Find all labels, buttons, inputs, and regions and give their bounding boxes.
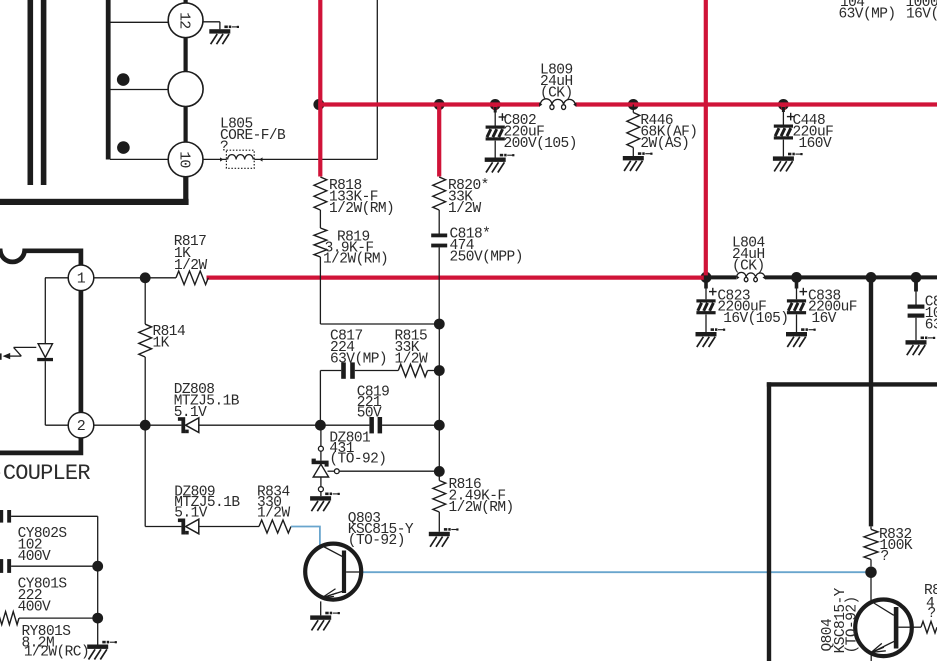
svg-text:400V: 400V — [18, 600, 51, 616]
svg-text:12: 12 — [176, 12, 193, 28]
svg-text:?: ? — [881, 549, 889, 565]
svg-text:2W(AS): 2W(AS) — [640, 136, 689, 152]
svg-text:1: 1 — [77, 271, 86, 288]
svg-text:(CK): (CK) — [732, 259, 765, 275]
svg-text:(TO-92): (TO-92) — [348, 533, 405, 549]
svg-text:1/2W: 1/2W — [448, 201, 481, 217]
svg-text:?: ? — [220, 140, 228, 156]
svg-text:1K: 1K — [153, 335, 170, 351]
svg-text:160V: 160V — [799, 136, 832, 152]
svg-text:63V(MP): 63V(MP) — [839, 7, 896, 23]
svg-text:16V(105): 16V(105) — [723, 311, 788, 327]
svg-text:1/2W: 1/2W — [174, 258, 207, 274]
svg-text:(CK): (CK) — [540, 86, 573, 102]
svg-text:1/2W(RM): 1/2W(RM) — [329, 201, 394, 217]
svg-text:400V: 400V — [18, 549, 51, 565]
svg-text:2: 2 — [77, 418, 86, 435]
svg-text:5.1V: 5.1V — [174, 405, 207, 421]
svg-text:?: ? — [928, 606, 936, 622]
svg-text:1/2W(RM): 1/2W(RM) — [323, 251, 388, 267]
svg-text:50V: 50V — [357, 406, 382, 422]
svg-text:1/2W(RC): 1/2W(RC) — [24, 644, 89, 660]
svg-text:1/2W: 1/2W — [257, 506, 290, 522]
svg-text:1/2W: 1/2W — [395, 351, 428, 367]
svg-text:5.1V: 5.1V — [174, 506, 207, 522]
svg-text:16V(: 16V( — [906, 7, 937, 23]
svg-text:CORE-F/B: CORE-F/B — [220, 128, 286, 144]
svg-text:-COUPLER: -COUPLER — [0, 461, 90, 486]
svg-text:(TO-92): (TO-92) — [329, 452, 386, 468]
svg-text:63: 63 — [925, 317, 937, 333]
svg-text:1/2W(RM): 1/2W(RM) — [449, 500, 514, 516]
svg-text:200V(105): 200V(105) — [504, 136, 577, 152]
svg-text:10: 10 — [176, 151, 193, 168]
svg-text:63V(MP): 63V(MP) — [330, 351, 387, 367]
svg-text:(TO-92): (TO-92) — [845, 596, 861, 653]
svg-text:16V: 16V — [812, 311, 837, 327]
svg-text:250V(MPP): 250V(MPP) — [450, 250, 523, 266]
